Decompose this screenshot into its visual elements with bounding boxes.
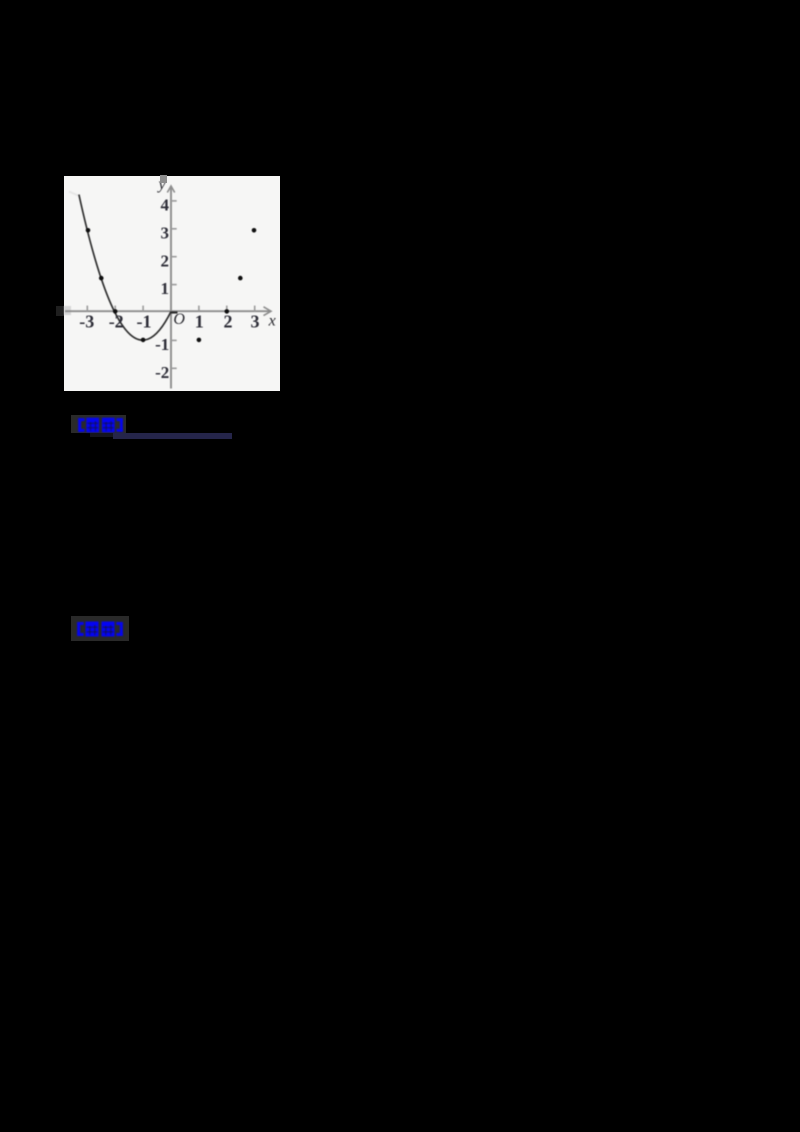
origin dash artifact bbox=[171, 311, 178, 313]
curve y=x^2+2x from x=-3.28 to 0 bbox=[79, 195, 171, 341]
point (2,0) bbox=[225, 309, 230, 314]
left bracket bbox=[77, 622, 80, 636]
label 2 blue text blob bbox=[77, 621, 123, 637]
svg-text:4: 4 bbox=[161, 196, 170, 215]
point (1,-1) bbox=[197, 338, 202, 343]
label 1 backing rect bbox=[71, 415, 127, 434]
point (-3,3) bbox=[86, 228, 91, 233]
y tick 4 bbox=[171, 200, 177, 202]
char 2 texture slits bbox=[104, 422, 107, 431]
x tick -3 bbox=[86, 306, 88, 312]
svg-text:-1: -1 bbox=[155, 335, 169, 354]
svg-text:3: 3 bbox=[251, 312, 260, 332]
gray cursor artifact at top of figure bbox=[160, 175, 167, 183]
x-axis arrowhead bbox=[264, 307, 272, 316]
char 1 texture slits bbox=[89, 422, 92, 431]
answer underline bar bbox=[113, 433, 232, 439]
y tick -1 bbox=[171, 339, 177, 341]
y-axis arrowhead bbox=[167, 186, 174, 193]
x tick -1 bbox=[142, 306, 144, 312]
svg-text:2: 2 bbox=[161, 251, 170, 270]
svg-text:2: 2 bbox=[224, 312, 233, 332]
char 2 texture slits bbox=[104, 626, 107, 635]
y tick 1 bbox=[171, 284, 177, 286]
x tick 1 bbox=[198, 306, 200, 312]
y-axis bbox=[170, 188, 172, 389]
x-axis bbox=[65, 310, 270, 312]
left-edge axis smudge bbox=[64, 306, 71, 315]
point (-2,0) bbox=[113, 309, 118, 314]
svg-text:-1: -1 bbox=[137, 312, 152, 332]
graph svg bbox=[64, 177, 280, 391]
svg-text:1: 1 bbox=[195, 312, 204, 332]
figure panel (white graph box) bbox=[64, 176, 280, 392]
char 1 block bbox=[86, 417, 99, 432]
svg-text:-2: -2 bbox=[109, 312, 124, 332]
left bracket bbox=[78, 418, 81, 432]
svg-text:x: x bbox=[268, 313, 276, 330]
char 1 texture slits bbox=[88, 626, 91, 635]
y tick 2 bbox=[171, 256, 177, 258]
x tick 3 bbox=[254, 306, 256, 312]
char 2 block bbox=[102, 622, 115, 637]
point (-2.5,1.25) bbox=[99, 276, 104, 281]
point (3,3) bbox=[252, 228, 257, 233]
label 1 blue text blob bbox=[78, 417, 123, 433]
label 2 backing rect bbox=[71, 616, 129, 641]
svg-text:3: 3 bbox=[161, 223, 170, 242]
char 1 block bbox=[86, 622, 99, 637]
char 2 block bbox=[101, 417, 114, 432]
x tick 2 bbox=[226, 306, 228, 312]
y tick -2 bbox=[171, 367, 177, 369]
x tick -2 bbox=[114, 306, 116, 312]
svg-text:-2: -2 bbox=[155, 363, 169, 382]
faint curve continuation smudge top-left bbox=[69, 192, 78, 196]
right bracket bbox=[120, 622, 123, 636]
point (-1,-1) bbox=[141, 338, 146, 343]
faint smudge outside box left of x-axis bbox=[56, 306, 64, 316]
right bracket bbox=[119, 418, 122, 432]
label 1 text ghost bbox=[90, 433, 113, 437]
y tick 3 bbox=[171, 228, 177, 230]
point (2.5,1.25) bbox=[238, 276, 243, 281]
svg-text:1: 1 bbox=[161, 279, 170, 298]
svg-text:O: O bbox=[173, 311, 185, 328]
svg-text:-3: -3 bbox=[79, 312, 94, 332]
